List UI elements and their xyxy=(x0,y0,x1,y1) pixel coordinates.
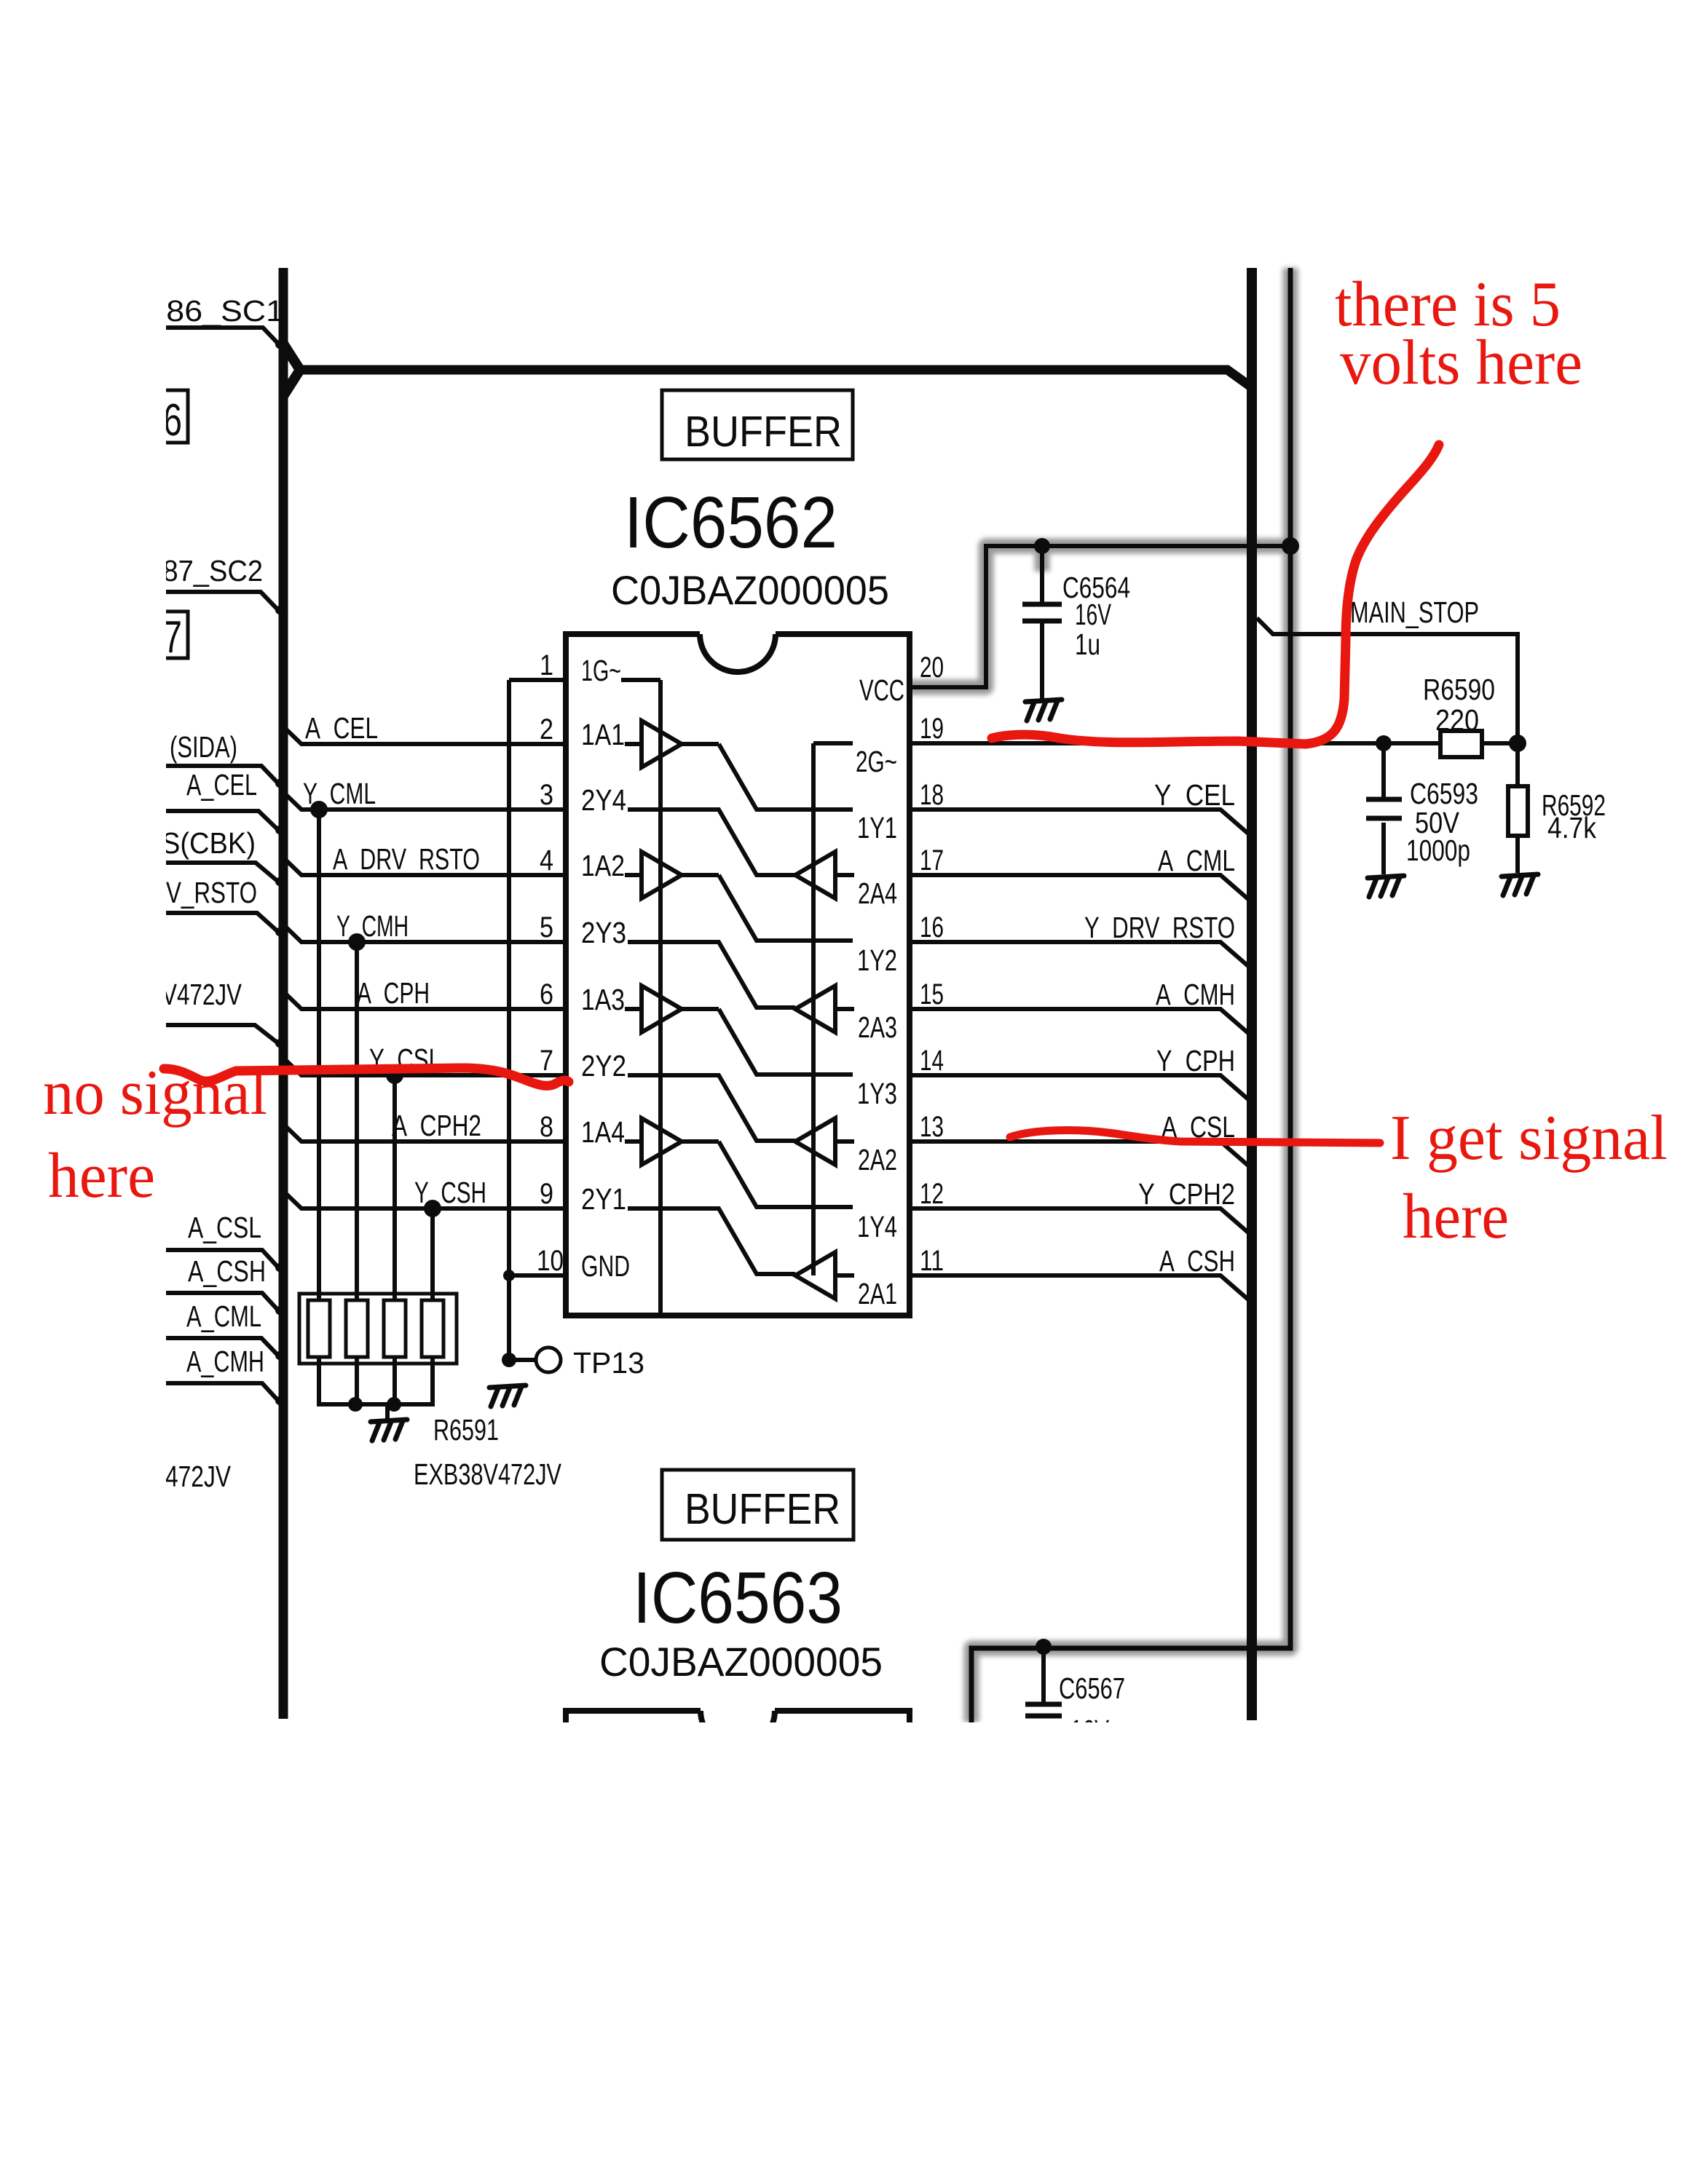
svg-text:IC6562: IC6562 xyxy=(624,482,837,563)
svg-text:1A2: 1A2 xyxy=(581,849,625,882)
internal left gate rail xyxy=(658,680,663,1314)
wire pin 14 from IC to bus xyxy=(910,1075,1248,1099)
wire pin 8 from bus to IC xyxy=(283,1124,566,1142)
wire pin 18 from IC to bus xyxy=(910,810,1248,834)
svg-text:A_CSH: A_CSH xyxy=(188,1254,266,1288)
svg-text:(SIDA): (SIDA) xyxy=(170,730,237,764)
V_RSTO flag wire xyxy=(166,913,278,932)
A_CSL flag wire xyxy=(166,1250,278,1267)
svg-text:1u: 1u xyxy=(1075,628,1100,661)
bus nub row7 xyxy=(279,1053,288,1062)
svg-text:volts here: volts here xyxy=(1340,328,1582,398)
svg-text:here: here xyxy=(1403,1182,1509,1252)
svg-text:2Y3: 2Y3 xyxy=(581,916,626,949)
wire pin 7 from bus to IC xyxy=(283,1058,566,1075)
svg-text:S(CBK): S(CBK) xyxy=(162,826,256,860)
svg-text:2Y2: 2Y2 xyxy=(581,1049,626,1083)
op-amp/buffer IC U IC6562 body outline xyxy=(566,634,910,1315)
wire - main vertical bus right xyxy=(1247,268,1257,1720)
junction on row 9 xyxy=(424,1200,441,1217)
sheet reference box 6 xyxy=(131,390,188,443)
(SIDA) flag wire xyxy=(166,766,278,783)
svg-text:11: 11 xyxy=(920,1245,944,1277)
resistor R6591 element 1 xyxy=(308,1300,330,1357)
wire C6593 stem xyxy=(1381,743,1386,874)
svg-text:Y_CPH2: Y_CPH2 xyxy=(1138,1177,1235,1211)
internal 2G~ stub xyxy=(813,741,853,745)
svg-text:17: 17 xyxy=(920,844,944,877)
svg-text:7: 7 xyxy=(540,1045,553,1077)
svg-text:A_CPH: A_CPH xyxy=(357,976,430,1010)
wire pin 15 from IC to bus xyxy=(910,1009,1248,1033)
wire R6591 to ground xyxy=(385,1404,390,1420)
svg-text:Y_CEL: Y_CEL xyxy=(1154,778,1235,812)
D86_SC1 flag wire xyxy=(166,328,279,344)
wire pin 20 VCC to highlighted net xyxy=(910,546,1289,687)
svg-text:19: 19 xyxy=(920,713,944,745)
test point TP13 circle xyxy=(536,1348,561,1372)
svg-text:1Y1: 1Y1 xyxy=(857,811,897,844)
wire drop to R6591 x=438 xyxy=(317,810,321,1303)
red marker line on pin7 / no-signal trace xyxy=(164,1068,569,1085)
red marker line on pin13 / I-get-signal trace xyxy=(1010,1131,1380,1143)
BUFFER label box (IC6563) xyxy=(662,1470,853,1540)
wire pin 9 from bus to IC xyxy=(283,1191,566,1208)
svg-text:A_CMH: A_CMH xyxy=(186,1345,264,1378)
svg-text:15: 15 xyxy=(920,978,944,1010)
internal wire 2Y output row pin 7 xyxy=(628,1075,795,1141)
bus nub A_CSH xyxy=(275,1306,284,1315)
internal 1G~ stub xyxy=(621,678,660,682)
svg-text:A_CPH2: A_CPH2 xyxy=(392,1109,481,1142)
ground below C6593 xyxy=(1368,876,1404,897)
bus nub A_CEL xyxy=(275,826,284,834)
node - highlighted VCC vertical net xyxy=(971,268,1290,1722)
S(CBK) flag wire xyxy=(166,863,278,882)
resistor R6591 element 4 xyxy=(422,1300,443,1357)
red marker line on pin19 / 5V trace xyxy=(992,445,1439,744)
A_CEL flag wire xyxy=(166,811,278,830)
svg-text:GND: GND xyxy=(581,1249,630,1283)
svg-text:3: 3 xyxy=(540,779,553,811)
svg-text:2A3: 2A3 xyxy=(858,1010,897,1044)
wire drop to R6591 x=490 xyxy=(355,942,359,1303)
wire pin 16 from IC to bus xyxy=(910,942,1248,966)
svg-text:TP13: TP13 xyxy=(573,1346,644,1380)
wire pin 2 from bus to IC xyxy=(283,727,566,744)
svg-text:A_CML: A_CML xyxy=(1158,844,1235,877)
bus nub D87_SC2 xyxy=(275,606,284,614)
wire to TP13 circle xyxy=(509,1358,536,1362)
svg-text:4.7k: 4.7k xyxy=(1547,811,1596,844)
svg-text:9: 9 xyxy=(540,1178,553,1210)
resistor R6591 element 2 xyxy=(346,1300,368,1357)
svg-text:A_CSL: A_CSL xyxy=(188,1211,261,1244)
svg-text:4: 4 xyxy=(540,844,553,877)
svg-text:1: 1 xyxy=(540,649,553,681)
svg-text:2: 2 xyxy=(540,713,553,745)
wire pin 17 from IC to bus xyxy=(910,875,1248,899)
white crop bottom edge xyxy=(0,1722,1688,2184)
junction on row 3 xyxy=(310,801,328,818)
ground below R6591 xyxy=(371,1420,407,1441)
svg-text:Y_CPH: Y_CPH xyxy=(1156,1044,1235,1077)
internal right gate rail xyxy=(811,743,816,1275)
svg-text:C6567: C6567 xyxy=(1059,1671,1125,1705)
svg-text:16V: 16V xyxy=(1075,598,1111,631)
wire pin 10 GND xyxy=(509,1273,566,1278)
svg-text:1000p: 1000p xyxy=(1406,834,1470,867)
ground below R6592 xyxy=(1502,874,1538,895)
svg-text:1A1: 1A1 xyxy=(581,718,625,751)
svg-text:2A4: 2A4 xyxy=(858,877,897,910)
svg-text:10: 10 xyxy=(537,1245,564,1277)
bus nub SIDA xyxy=(275,779,284,788)
capacitor C6567 junction xyxy=(1036,1639,1052,1655)
bus nub row9 xyxy=(279,1187,288,1195)
svg-text:BUFFER: BUFFER xyxy=(685,408,842,456)
svg-text:20: 20 xyxy=(920,652,944,684)
wire pin 13 from IC to bus xyxy=(910,1142,1248,1166)
wire pin 12 from IC to bus xyxy=(910,1208,1248,1233)
wire pin 5 from bus to IC xyxy=(283,925,566,942)
capacitor C6593 xyxy=(1366,799,1402,818)
internal wire 2Y output row pin 9 xyxy=(628,1208,795,1274)
svg-text:IC6563: IC6563 xyxy=(633,1557,843,1639)
svg-text:1Y3: 1Y3 xyxy=(857,1077,897,1110)
wire drop to R6591 x=542 xyxy=(393,1075,397,1303)
svg-text:13: 13 xyxy=(920,1111,944,1143)
wire - main vertical bus left xyxy=(279,268,288,1719)
svg-text:6: 6 xyxy=(540,978,553,1010)
buffer gate 2A2 xyxy=(795,1118,835,1165)
svg-text:A_DRV_RSTO: A_DRV_RSTO xyxy=(333,842,480,876)
wire pin 1 to 1G bracket xyxy=(509,678,566,682)
svg-text:8: 8 xyxy=(540,1111,553,1143)
svg-text:2A1: 2A1 xyxy=(858,1277,897,1310)
wire R6591 bottoms join xyxy=(319,1357,433,1404)
wire pin 6 from bus to IC xyxy=(283,992,566,1009)
BUFFER label box (IC6562) xyxy=(662,390,853,459)
capacitor C6564 xyxy=(1022,604,1062,621)
bus nub V472JV xyxy=(275,1039,284,1048)
A_CML flag wire xyxy=(166,1338,278,1356)
wire pin 4 from bus to IC xyxy=(283,858,566,875)
wire - thick horizontal bus xyxy=(297,365,1229,375)
svg-text:1G~: 1G~ xyxy=(581,654,621,687)
bus nub D86_SC1 xyxy=(275,340,284,349)
buffer gate 2A4 xyxy=(795,852,835,898)
svg-text:2G~: 2G~ xyxy=(856,745,897,778)
svg-text:A_CML: A_CML xyxy=(186,1299,261,1333)
junction TP13 node xyxy=(502,1353,516,1367)
junction MAIN_STOP/C6593 xyxy=(1376,735,1392,751)
svg-text:472JV: 472JV xyxy=(165,1460,231,1493)
junction on row 5 xyxy=(348,933,366,951)
bus nub row3 xyxy=(279,788,288,796)
svg-text:2Y1: 2Y1 xyxy=(581,1182,626,1216)
wire bracket 1G-to-GND xyxy=(507,680,511,1275)
svg-text:BUFFER: BUFFER xyxy=(685,1485,840,1533)
svg-text:VCC: VCC xyxy=(859,673,904,707)
highlighted VCC net glow xyxy=(910,268,1290,1722)
wire pin 3 from bus to IC xyxy=(283,792,566,810)
resistor network R6591 outer box xyxy=(299,1294,457,1364)
junction at pin10/bracket xyxy=(503,1270,515,1281)
internal wire 2Y output row pin 5 xyxy=(628,942,795,1008)
sheet reference box 7 xyxy=(131,612,188,658)
buffer gate 1A2 xyxy=(625,873,642,877)
svg-text:V472JV: V472JV xyxy=(162,978,242,1011)
wire pin10 down to TP13 node xyxy=(507,1275,511,1360)
junction R6591 join a xyxy=(348,1397,363,1412)
wire pin 11 from IC to bus xyxy=(910,1275,1248,1299)
svg-text:I get signal: I get signal xyxy=(1390,1103,1668,1174)
svg-text:EXB38V472JV: EXB38V472JV xyxy=(414,1457,561,1491)
svg-text:220: 220 xyxy=(1435,703,1479,737)
bus nub A_CML xyxy=(275,1351,284,1360)
bus nub row4 xyxy=(279,853,288,862)
A_CMH flag wire xyxy=(166,1383,278,1401)
svg-text:V_RSTO: V_RSTO xyxy=(166,876,257,909)
ground below C6564 xyxy=(1025,700,1062,721)
svg-text:1A4: 1A4 xyxy=(581,1115,625,1149)
junction VCC at highlighted net xyxy=(1282,537,1299,555)
svg-text:R6590: R6590 xyxy=(1423,673,1495,706)
bus nub row8 xyxy=(279,1120,288,1128)
buffer gate 1A4 xyxy=(625,1139,642,1144)
resistor R6590 xyxy=(1440,731,1482,757)
junction kink at left bus xyxy=(283,344,300,396)
D87_SC2 flag wire xyxy=(166,592,278,610)
bus nub row5 xyxy=(279,920,288,929)
junction MAIN_STOP/R6592 xyxy=(1509,735,1526,752)
V472JV flag wire xyxy=(166,1025,278,1043)
ground below TP13 node xyxy=(489,1385,526,1406)
resistor R6591 element 3 xyxy=(384,1300,406,1357)
bus nub S(CBK) xyxy=(275,877,284,886)
svg-text:2A2: 2A2 xyxy=(858,1143,897,1176)
svg-text:Y_DRV_RSTO: Y_DRV_RSTO xyxy=(1084,911,1235,944)
svg-text:C0JBAZ000005: C0JBAZ000005 xyxy=(611,567,889,613)
bus nub row2 xyxy=(279,722,288,731)
svg-text:2Y4: 2Y4 xyxy=(581,783,626,817)
svg-text:1Y4: 1Y4 xyxy=(857,1210,897,1243)
bus nub V_RSTO xyxy=(275,927,284,936)
junction on row 7 xyxy=(386,1067,403,1084)
resistor R6592 xyxy=(1508,786,1528,836)
svg-text:16: 16 xyxy=(920,911,944,943)
bus nub row6 xyxy=(279,987,288,996)
capacitor C6567 xyxy=(1025,1704,1062,1716)
buffer gate 1A3 xyxy=(625,1007,642,1011)
svg-text:18: 18 xyxy=(920,779,944,811)
svg-text:A_CSH: A_CSH xyxy=(1159,1244,1235,1278)
bus nub A_CMH xyxy=(275,1396,284,1405)
white crop left edge xyxy=(0,0,166,2184)
svg-text:5: 5 xyxy=(540,911,553,943)
svg-text:Y_CMH: Y_CMH xyxy=(336,909,409,943)
buffer gate 1A1 xyxy=(625,742,642,746)
svg-text:here: here xyxy=(48,1141,155,1211)
svg-text:R6591: R6591 xyxy=(433,1413,499,1447)
internal wire 2Y output row pin 3 xyxy=(628,810,795,875)
svg-text:14: 14 xyxy=(920,1045,944,1077)
svg-text:A_CMH: A_CMH xyxy=(1156,978,1235,1011)
wire C6567 stem xyxy=(1041,1647,1046,1703)
wire drop to R6591 x=594 xyxy=(430,1208,435,1303)
svg-text:12: 12 xyxy=(920,1178,944,1210)
A_CSH flag wire xyxy=(166,1293,278,1310)
wire pin 19 net to R6590 xyxy=(910,741,1518,745)
svg-text:1Y2: 1Y2 xyxy=(857,943,897,977)
svg-text:A_CEL: A_CEL xyxy=(186,768,257,802)
svg-text:A_CEL: A_CEL xyxy=(305,711,378,745)
junction R6591 join b xyxy=(387,1397,401,1412)
svg-text:C0JBAZ000005: C0JBAZ000005 xyxy=(599,1639,883,1685)
buffer gate 2A1 xyxy=(795,1252,835,1299)
wire R6592 stem xyxy=(1515,743,1520,873)
svg-text:1A3: 1A3 xyxy=(581,983,625,1016)
buffer gate 2A3 xyxy=(795,986,835,1032)
IC6563 body top edge (cut) xyxy=(566,1711,910,1722)
wire C6564 stem xyxy=(1040,546,1044,700)
svg-text:MAIN_STOP: MAIN_STOP xyxy=(1350,596,1479,629)
wire MAIN_STOP from bus xyxy=(1257,618,1518,743)
bus nub A_CSL xyxy=(275,1263,284,1272)
junction VCC at C6564 xyxy=(1034,538,1050,554)
wire - thick bus bevel into right bus xyxy=(1226,369,1250,386)
